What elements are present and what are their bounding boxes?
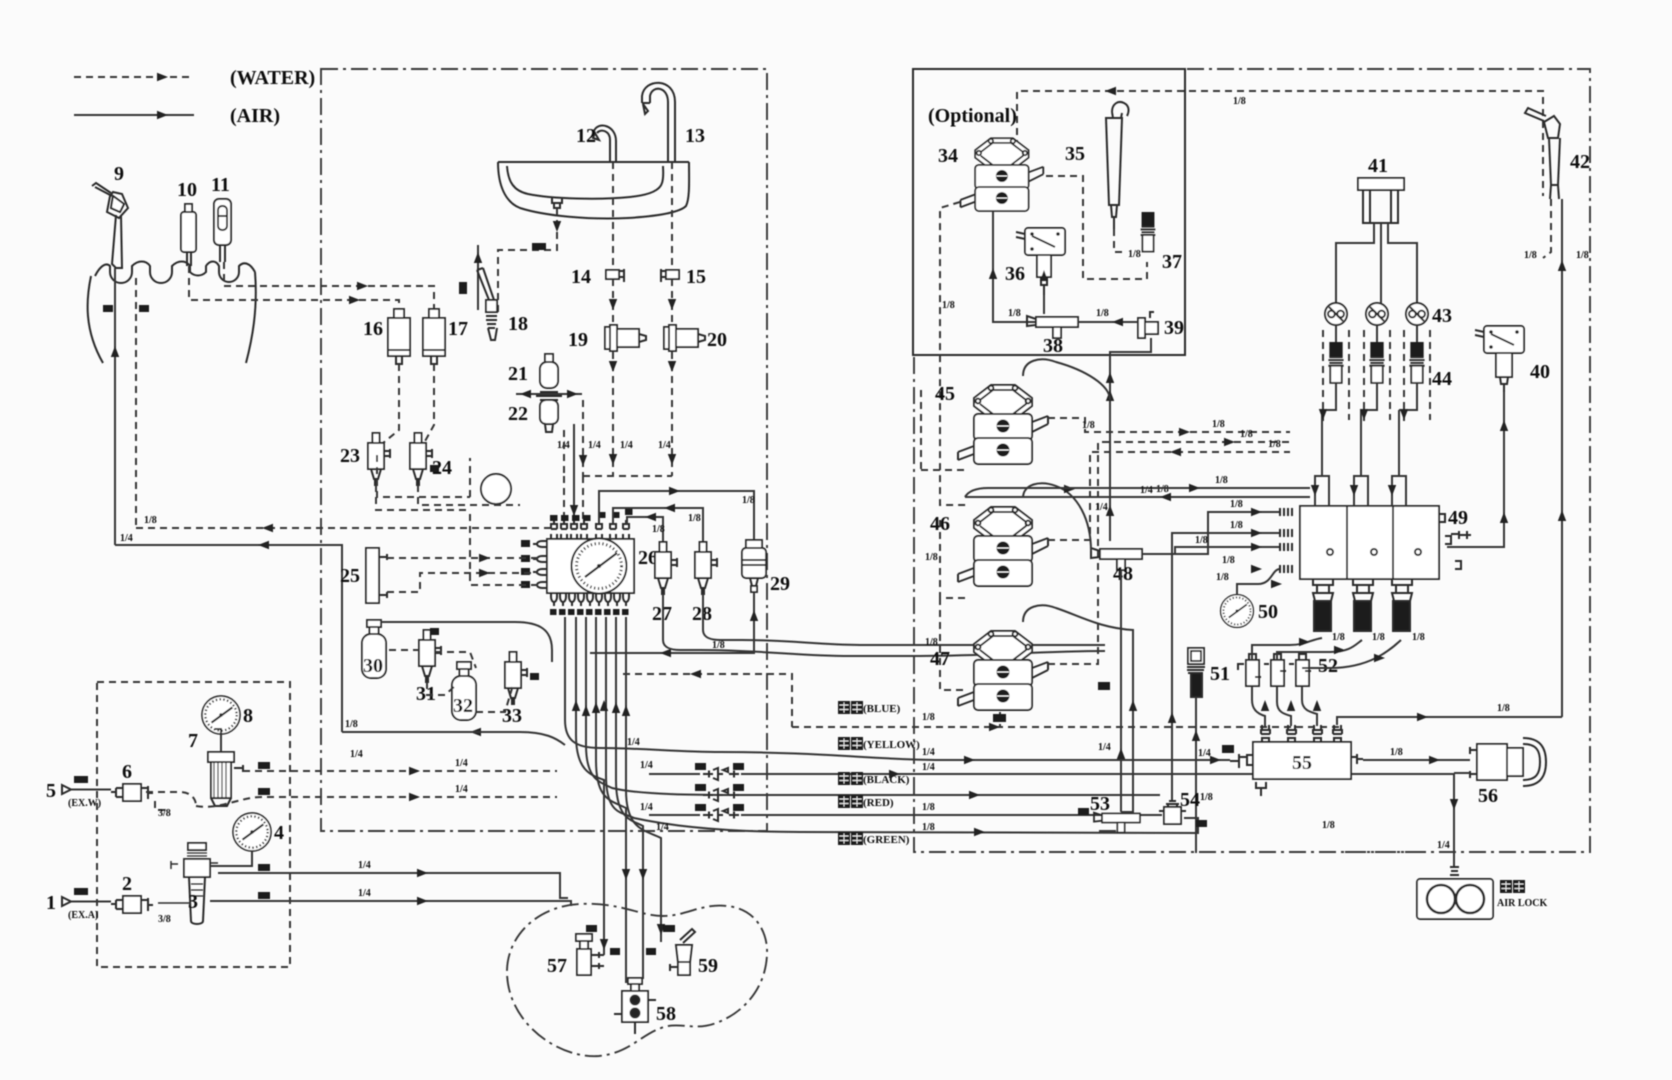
node AW label — [139, 305, 149, 312]
block top port labels — [550, 509, 633, 521]
dashed 35 tail — [1114, 229, 1126, 252]
svg-text:1/4: 1/4 — [1140, 485, 1153, 496]
dashed bus arrows — [1170, 428, 1235, 456]
dashed 46 right — [1048, 452, 1290, 540]
svg-text:1/8: 1/8 — [1128, 249, 1141, 260]
svg-text:1/4: 1/4 — [120, 533, 133, 544]
needle valve 18 — [477, 268, 498, 340]
valve 2 — [111, 896, 153, 913]
gauge on block 26 — [572, 539, 627, 594]
wire cup10 to 16 dashed — [189, 266, 399, 318]
svg-text:33: 33 — [502, 705, 522, 727]
svg-text:52: 52 — [1318, 655, 1338, 677]
svg-text:20: 20 — [707, 329, 727, 351]
svg-text:1/4: 1/4 — [658, 440, 671, 451]
dashed column faucet12 — [612, 162, 614, 269]
wire 40 down — [1447, 392, 1508, 547]
micro switch 36 — [1016, 228, 1065, 255]
svg-text:1/4: 1/4 — [640, 760, 653, 771]
svg-text:AIR LOCK: AIR LOCK — [1497, 898, 1548, 909]
svg-text:1/8: 1/8 — [1233, 96, 1246, 107]
manifold block 26 — [547, 539, 634, 593]
wire 51 down — [1192, 697, 1200, 853]
valves 52 — [1238, 654, 1311, 686]
svg-text:(GREEN): (GREEN) — [863, 834, 910, 846]
cuspidor valve 58 — [614, 978, 656, 1034]
svg-text:55: 55 — [1292, 752, 1312, 774]
svg-text:1/4: 1/4 — [455, 758, 468, 769]
micro switch 40 — [1475, 326, 1524, 353]
label 8A — [1196, 820, 1207, 827]
dashed 25 to block — [387, 554, 538, 592]
svg-text:40: 40 — [1530, 361, 1550, 383]
manifold 55 — [1230, 725, 1363, 796]
gauge 50 — [1221, 595, 1254, 628]
svg-text:1/8: 1/8 — [1240, 429, 1253, 440]
svg-text:1: 1 — [46, 892, 56, 914]
legend water dashed line — [74, 73, 194, 81]
svg-text:10: 10 — [177, 179, 197, 201]
dashed pair arrows — [1319, 409, 1408, 420]
valve under 40 — [1496, 353, 1512, 392]
svg-text:43: 43 — [1432, 305, 1452, 327]
tee 53 — [1094, 813, 1140, 833]
svg-text:(RED): (RED) — [863, 797, 894, 809]
dashed W1 line right — [196, 784, 557, 807]
cjk red label — [838, 795, 894, 809]
svg-text:2: 2 — [122, 873, 132, 895]
dashed 47 bottom to blue — [999, 712, 1001, 727]
solenoid valve 19 — [605, 325, 646, 351]
handpiece 11 — [214, 199, 231, 262]
svg-text:1/8: 1/8 — [922, 802, 935, 813]
valve 31 — [419, 630, 441, 682]
wire 8 to 7 — [220, 734, 222, 752]
svg-text:(BLUE): (BLUE) — [863, 703, 901, 715]
svg-text:1/4: 1/4 — [922, 747, 935, 758]
svg-text:1/4: 1/4 — [1095, 502, 1108, 513]
svg-text:19: 19 — [568, 329, 588, 351]
svg-text:50: 50 — [1258, 601, 1278, 623]
svg-text:1/4: 1/4 — [557, 440, 570, 451]
wire tray water dashed bottom — [136, 524, 557, 532]
svg-text:1/8: 1/8 — [1230, 520, 1243, 531]
scaler handpiece 35 — [1106, 102, 1129, 229]
optional solid box — [913, 69, 1185, 355]
svg-text:3/8: 3/8 — [158, 808, 171, 819]
handpiece 9 syringe — [92, 183, 128, 268]
arrows at 21/22 — [516, 390, 582, 398]
svg-text:18: 18 — [508, 313, 528, 335]
handpiece 10 — [181, 204, 196, 266]
svg-text:6: 6 — [122, 761, 132, 783]
hex block 47 — [958, 631, 1048, 710]
wire 42 dashed down — [1543, 199, 1551, 258]
svg-text:5: 5 — [46, 780, 56, 802]
svg-text:54: 54 — [1180, 789, 1200, 811]
wire top port to 29 — [599, 487, 754, 540]
wire top port to 27 — [627, 513, 663, 548]
svg-text:51: 51 — [1210, 663, 1230, 685]
wire 28 down right — [703, 594, 1105, 645]
cjk green label — [838, 832, 910, 846]
valve 27 — [655, 542, 677, 594]
svg-text:1/8: 1/8 — [925, 637, 938, 648]
dashed box around 23/24 — [377, 455, 470, 497]
dashed 47 right — [1048, 442, 1290, 664]
svg-text:4: 4 — [274, 822, 284, 844]
valve 16 — [388, 309, 410, 364]
svg-text:(WATER): (WATER) — [230, 67, 315, 89]
svg-text:1/8: 1/8 — [144, 515, 157, 526]
wire top port to 28 — [613, 504, 703, 548]
valve 54 — [1159, 801, 1186, 824]
svg-text:1/8: 1/8 — [922, 712, 935, 723]
stop valve 57 — [576, 934, 604, 975]
label CA — [1222, 745, 1234, 753]
wire horizontal pair to 46 — [965, 488, 1310, 497]
svg-text:30: 30 — [363, 655, 383, 677]
svg-text:34: 34 — [938, 145, 958, 167]
wire A1 line — [210, 888, 571, 906]
handpiece tray scalloped holder — [88, 262, 256, 364]
bowl valve 59 — [670, 929, 695, 975]
svg-text:11: 11 — [211, 174, 230, 196]
dashed 34 left nipple — [940, 202, 967, 505]
filter 7 — [208, 729, 243, 806]
regulators 44 — [1328, 342, 1343, 383]
tee 38 — [1027, 316, 1078, 338]
dashed left into block — [470, 510, 538, 585]
svg-text:48: 48 — [1113, 563, 1133, 585]
svg-text:7: 7 — [188, 730, 198, 752]
svg-text:1/8: 1/8 — [1412, 632, 1425, 643]
wires 52 down to 55 — [1252, 686, 1562, 726]
block top ports — [551, 520, 629, 539]
solenoid valve 20 — [664, 325, 705, 351]
hex block 34 — [960, 138, 1043, 211]
barb fittings at 49 inlets — [1280, 508, 1292, 573]
wire 45 top loop — [1023, 359, 1114, 400]
wire 22 down to block — [570, 424, 578, 524]
valve 24 — [410, 433, 432, 485]
inlet 5 — [46, 776, 111, 809]
wire 34 bottom to tee — [989, 211, 1040, 322]
block bottom port labels — [550, 609, 629, 615]
dashed blue line — [792, 723, 1340, 731]
svg-text:1/8: 1/8 — [1576, 250, 1589, 261]
wires 52 to mufflers — [1252, 638, 1401, 668]
svg-text:41: 41 — [1368, 155, 1388, 177]
svg-text:1/8: 1/8 — [1222, 555, 1235, 566]
air lock box — [1417, 879, 1493, 919]
wire 56 to air lock — [1437, 773, 1470, 867]
regulator 37 — [1141, 212, 1156, 252]
svg-text:1/4: 1/4 — [455, 784, 468, 795]
wire 30 cap right — [381, 622, 552, 662]
svg-text:36: 36 — [1005, 263, 1025, 285]
outer dash-dot box right — [914, 69, 1590, 852]
label p25 — [532, 243, 546, 250]
dashed enclosure 45 — [921, 390, 965, 470]
svg-text:53: 53 — [1090, 793, 1110, 815]
dash-dot small right bottom — [1099, 831, 1420, 852]
wire 16 down dashed — [383, 364, 399, 443]
fitting 39 — [1138, 312, 1158, 338]
svg-text:9: 9 — [114, 163, 124, 185]
dashed 45 right to bus — [1048, 418, 1290, 432]
svg-text:22: 22 — [508, 403, 528, 425]
wire cup11 to 17 dashed — [224, 262, 434, 318]
filter 29 — [742, 540, 766, 592]
svg-text:1/8: 1/8 — [1156, 484, 1169, 495]
arrows up into 55 — [1261, 700, 1428, 721]
svg-text:1/8: 1/8 — [1195, 535, 1208, 546]
svg-text:1/8: 1/8 — [1372, 632, 1385, 643]
master switch 41 — [1358, 178, 1404, 223]
wire 29 line to right — [700, 649, 1105, 657]
41 legs — [1336, 223, 1417, 303]
svg-text:56: 56 — [1478, 785, 1498, 807]
dashed blue feeder — [623, 670, 792, 727]
svg-text:16: 16 — [363, 318, 383, 340]
arrows to mufflers — [1299, 638, 1385, 662]
filter 25 — [366, 548, 387, 603]
legend air line — [74, 111, 194, 119]
svg-text:1/8: 1/8 — [1096, 308, 1109, 319]
dashed 34 right nipple — [1046, 176, 1147, 279]
valve under 36 — [1037, 255, 1051, 295]
valve 23 — [368, 433, 390, 485]
svg-text:1/8: 1/8 — [1230, 499, 1243, 510]
svg-text:1/8: 1/8 — [345, 719, 358, 730]
svg-text:1/4: 1/4 — [620, 440, 633, 451]
svg-text:15: 15 — [686, 266, 706, 288]
arrows on pair — [1160, 484, 1200, 501]
valve 28 — [695, 542, 717, 594]
svg-text:32: 32 — [453, 695, 473, 717]
wire 48 right to 49 inlets — [1142, 512, 1280, 802]
49 bottom ports and mufflers — [1313, 579, 1412, 631]
svg-text:12: 12 — [576, 125, 596, 147]
dashed box top right — [1017, 91, 1543, 196]
svg-text:1/8: 1/8 — [1082, 420, 1095, 431]
dashed 15 to 20 — [671, 279, 673, 476]
wire 39 down to 48 — [1106, 338, 1151, 541]
svg-text:23: 23 — [340, 445, 360, 467]
sink basin — [498, 162, 689, 219]
dashed column faucet13 — [671, 162, 673, 269]
spittoon line labels — [586, 925, 675, 955]
svg-text:35: 35 — [1065, 143, 1085, 165]
svg-text:1/8: 1/8 — [1008, 308, 1021, 319]
svg-text:(EX.W): (EX.W) — [68, 798, 101, 809]
node AA label — [103, 305, 113, 312]
hex block 45 — [958, 385, 1048, 464]
air lock fitting — [1450, 867, 1459, 879]
wire 27 down right — [663, 594, 700, 650]
faucet 13 gooseneck — [642, 83, 675, 162]
svg-text:1/8: 1/8 — [1390, 747, 1403, 758]
svg-text:1/8: 1/8 — [1524, 250, 1537, 261]
cjk blue label — [838, 701, 901, 715]
svg-text:45: 45 — [935, 383, 955, 405]
svg-text:1/8: 1/8 — [925, 552, 938, 563]
spittoon kidney outline — [507, 904, 767, 1056]
faucet 12 — [593, 126, 616, 162]
valve 6 — [111, 784, 153, 801]
ball valves 43 — [1325, 303, 1347, 325]
cjk yellow label — [838, 737, 920, 751]
air lock label — [1497, 880, 1548, 909]
dashed 30-31 — [389, 650, 455, 695]
bottle 30 — [362, 620, 386, 678]
block left ports — [533, 541, 547, 588]
cjk black label — [838, 772, 910, 786]
wire 4 stem — [211, 851, 252, 866]
svg-text:1/4: 1/4 — [656, 822, 669, 833]
motor 56 — [1470, 738, 1546, 786]
44 columns to 49 — [1322, 325, 1417, 410]
svg-text:14: 14 — [571, 266, 591, 288]
manifold 49 — [1300, 506, 1471, 579]
dashed W2 line right — [243, 758, 557, 775]
wire 36 to tee 38 — [1040, 270, 1048, 314]
svg-text:1/4: 1/4 — [358, 860, 371, 871]
svg-text:1/8: 1/8 — [652, 524, 665, 535]
regulator 3 — [158, 843, 218, 924]
svg-text:1/4: 1/4 — [1198, 748, 1211, 759]
svg-text:3/8: 3/8 — [158, 914, 171, 925]
wire 18 inlet arrow up — [474, 245, 482, 310]
svg-text:42: 42 — [1570, 151, 1590, 173]
valve 22 — [540, 400, 558, 432]
svg-text:1/8: 1/8 — [688, 513, 701, 524]
valve 33 — [505, 652, 527, 704]
svg-text:8: 8 — [243, 705, 253, 727]
wire 24 to block dashed — [418, 485, 520, 505]
ba fitting on black line — [703, 789, 739, 801]
svg-text:49: 49 — [1448, 507, 1468, 529]
svg-text:(Optional): (Optional) — [928, 105, 1017, 127]
valve 21 — [536, 354, 562, 396]
drain dashed to needle valve 18 — [498, 208, 561, 317]
dashed 6-7 W1 line — [146, 792, 196, 810]
svg-text:17: 17 — [448, 318, 468, 340]
dashed arrow on top bus — [1105, 87, 1116, 95]
svg-text:1/8: 1/8 — [1200, 792, 1213, 803]
svg-text:(YELLOW): (YELLOW) — [863, 739, 920, 751]
svg-text:1/8: 1/8 — [1215, 475, 1228, 486]
svg-text:1/4: 1/4 — [350, 749, 363, 760]
wire 55 to 56 — [1363, 747, 1470, 764]
svg-text:1/8: 1/8 — [1216, 572, 1229, 583]
left dashed box 1-8 — [97, 682, 290, 967]
dashed pairs at 44 — [1323, 330, 1430, 425]
label hash — [430, 465, 439, 472]
dashed bus above block — [564, 400, 672, 524]
block left port labels — [521, 540, 530, 588]
svg-text:1/8: 1/8 — [1212, 419, 1225, 430]
wire A2 line — [218, 860, 568, 898]
svg-text:(AIR): (AIR) — [230, 105, 280, 127]
wire tee to 39 — [1078, 318, 1138, 326]
connector 14 — [606, 269, 624, 282]
svg-text:1/4: 1/4 — [1437, 840, 1450, 851]
wire 46 top loop — [1023, 483, 1091, 551]
svg-text:1/4: 1/4 — [627, 737, 640, 748]
label small — [430, 628, 439, 635]
svg-text:1/8: 1/8 — [742, 495, 755, 506]
svg-text:3: 3 — [188, 891, 198, 913]
wire 42 solid down — [1558, 199, 1566, 717]
svg-text:29: 29 — [770, 573, 790, 595]
svg-text:1/8: 1/8 — [1322, 820, 1335, 831]
svg-text:1/4: 1/4 — [588, 440, 601, 451]
red line with fittings — [649, 809, 1162, 821]
dashed 14 to 19 — [612, 279, 614, 476]
gauge 8 — [202, 696, 240, 734]
svg-text:1/8: 1/8 — [922, 822, 935, 833]
svg-text:1/4: 1/4 — [640, 802, 653, 813]
label p25b — [459, 282, 467, 294]
circle pump — [481, 474, 511, 504]
svg-text:39: 39 — [1164, 317, 1184, 339]
wire 17 down dashed — [424, 364, 434, 443]
svg-text:(BLACK): (BLACK) — [863, 774, 910, 786]
label cw under 47 — [993, 714, 1006, 722]
svg-text:58: 58 — [656, 1003, 676, 1025]
dashed enclosure 46 — [925, 520, 965, 690]
bundle arrows — [470, 700, 1221, 950]
arrows into 49 — [1251, 508, 1282, 588]
arrows on loops — [1311, 485, 1396, 496]
wire 29 down-left — [590, 592, 758, 657]
svg-text:13: 13 — [685, 125, 705, 147]
svg-text:1/8: 1/8 — [1497, 703, 1510, 714]
wire bundle below block — [565, 617, 1230, 983]
svg-text:1/8: 1/8 — [1268, 439, 1281, 450]
gauge 4 — [233, 813, 271, 851]
da line with fittings — [649, 768, 1454, 780]
wire 23 bottom dashed — [376, 485, 470, 510]
regulator 51 — [1187, 648, 1205, 697]
wire 54 stem — [1184, 818, 1198, 824]
wire tray air bottom — [115, 541, 342, 732]
wire tray air riser — [111, 268, 119, 545]
svg-text:57: 57 — [547, 955, 567, 977]
connector 15 — [661, 269, 679, 282]
dashed 31-32-33 — [435, 652, 513, 712]
svg-text:1/4: 1/4 — [1098, 742, 1111, 753]
labels DA 1/4 on 48 stem — [1098, 682, 1110, 690]
wire 47 top loop — [1023, 605, 1137, 812]
svg-text:37: 37 — [1162, 251, 1182, 273]
air gun 42 — [1525, 108, 1560, 199]
svg-text:(EX.A): (EX.A) — [68, 910, 98, 921]
svg-text:1/4: 1/4 — [358, 888, 371, 899]
svg-text:21: 21 — [508, 363, 528, 385]
wire 48 stem down to 53 — [1117, 570, 1125, 812]
svg-text:59: 59 — [698, 955, 718, 977]
svg-text:1/4: 1/4 — [922, 762, 935, 773]
49 top loops — [1315, 410, 1406, 506]
svg-text:38: 38 — [1043, 335, 1063, 357]
svg-text:44: 44 — [1432, 368, 1452, 390]
inlet 1 — [46, 888, 111, 921]
svg-text:1/8: 1/8 — [942, 300, 955, 311]
bottle 32 — [452, 662, 476, 720]
